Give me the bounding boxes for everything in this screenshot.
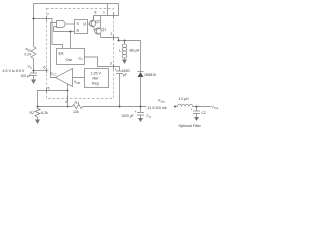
svg-text:3: 3	[110, 62, 112, 66]
svg-text:R: R	[77, 29, 80, 33]
svg-text:2: 2	[111, 32, 113, 36]
svg-text:-12 V/100 mA: -12 V/100 mA	[147, 106, 168, 110]
svg-text:Ref: Ref	[93, 77, 99, 81]
svg-text:12k: 12k	[73, 110, 79, 114]
svg-text:Out: Out	[161, 100, 165, 104]
svg-text:Q1: Q1	[102, 28, 107, 32]
svg-text:8: 8	[95, 11, 97, 15]
svg-text:1000 µF: 1000 µF	[122, 114, 134, 118]
svg-text:4.5 V to 5.5 V: 4.5 V to 5.5 V	[3, 69, 25, 73]
svg-text:T: T	[81, 58, 83, 62]
svg-text:1: 1	[103, 11, 105, 15]
svg-text:C2: C2	[202, 111, 206, 115]
svg-text:1N5819: 1N5819	[144, 73, 156, 77]
svg-text:+: +	[115, 68, 117, 72]
svg-text:1.25 V: 1.25 V	[91, 72, 102, 76]
svg-text:Q: Q	[83, 22, 86, 26]
svg-text:O: O	[149, 116, 151, 119]
svg-text:0.24: 0.24	[25, 53, 32, 57]
svg-text:4: 4	[65, 100, 67, 104]
svg-text:R2: R2	[30, 111, 35, 115]
svg-text:1.0 µH: 1.0 µH	[179, 97, 190, 101]
svg-text:6: 6	[44, 66, 46, 70]
svg-text:Ipk: Ipk	[59, 52, 64, 56]
svg-text:88 µH: 88 µH	[130, 49, 140, 53]
svg-text:100 µF: 100 µF	[21, 74, 31, 78]
svg-text:Out: Out	[214, 106, 218, 110]
svg-text:Osc: Osc	[66, 58, 73, 62]
svg-text:Reg: Reg	[92, 82, 99, 86]
svg-text:7: 7	[47, 13, 49, 17]
svg-text:Optional Filter: Optional Filter	[179, 124, 202, 128]
svg-text:R1: R1	[75, 101, 80, 105]
svg-text:pF: pF	[123, 73, 127, 77]
svg-text:L: L	[119, 49, 121, 53]
svg-text:+: +	[135, 110, 137, 114]
svg-text:CC: CC	[53, 73, 57, 77]
svg-text:+: +	[191, 108, 193, 112]
svg-text:FB: FB	[77, 81, 81, 85]
svg-text:5: 5	[48, 87, 50, 91]
svg-text:Q2: Q2	[95, 20, 100, 24]
svg-text:6.2k: 6.2k	[41, 111, 48, 115]
